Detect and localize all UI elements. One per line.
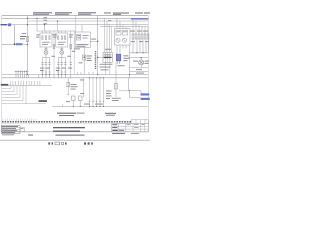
fan destination label	[39, 100, 48, 102]
blue cross-reference link 2	[141, 98, 150, 100]
wire drop from supply	[14, 25, 16, 45]
tap wire B	[57, 20, 58, 31]
enclosure box U1	[75, 25, 90, 48]
contact symbol group 2	[60, 47, 63, 50]
drive unit inner labels	[117, 30, 127, 33]
drive unit G1 box	[115, 29, 131, 46]
contact symbol group 1	[45, 47, 48, 50]
bus wire L1	[2, 17, 149, 19]
bus wire L2	[28, 20, 149, 22]
bus wire lower 2	[2, 77, 149, 79]
terminal crossbars group 1	[42, 71, 51, 73]
strip underline	[2, 122, 131, 124]
title block header row	[131, 120, 148, 124]
stub on long wire	[62, 104, 64, 106]
group 2 wire labels	[56, 56, 71, 71]
aux wire right	[119, 78, 141, 98]
harness fan wire 4	[2, 85, 20, 97]
notes above terminal strip	[57, 113, 116, 116]
bus wire lower 1	[2, 74, 149, 76]
wires to relay coil	[117, 49, 120, 55]
splitter group 1	[43, 55, 50, 75]
relay output component	[112, 62, 121, 101]
junction dots on lower bus	[27, 74, 130, 75]
tap wire A	[44, 24, 45, 31]
drawing notes text	[53, 127, 85, 132]
group 2 labels	[52, 34, 73, 44]
branch wire box to bus	[90, 40, 97, 42]
cable labels right	[106, 91, 112, 99]
motor cable wires	[90, 78, 104, 107]
motor starter group 1 device box	[40, 31, 52, 47]
spare wire between groups	[53, 31, 55, 75]
blue cross-reference link 1	[141, 93, 150, 95]
wire to left edge	[2, 43, 15, 45]
motor starter group 2 device box	[56, 31, 68, 47]
motor labels	[133, 61, 149, 64]
node bus right 2	[128, 57, 149, 59]
junction dots	[97, 41, 98, 42]
contactor M1 circle	[44, 51, 48, 55]
wires to terminal block	[105, 18, 112, 52]
right wires down to node bus	[133, 39, 149, 53]
terminal strip X1 ticks	[10, 81, 40, 85]
terminal ticks row between buses	[16, 75, 29, 78]
terminal strip X10 dashed row	[2, 121, 131, 123]
tap wire left	[36, 18, 37, 31]
header label row (sheet cross references)	[33, 12, 150, 14]
legend table	[1, 126, 24, 136]
splitter group 2	[58, 55, 65, 75]
overload contacts group 1	[41, 62, 50, 64]
bus name labels	[44, 17, 48, 24]
enclosure labels	[74, 35, 89, 49]
terminal strip label	[1, 84, 9, 86]
terminal header line with dots	[15, 71, 29, 75]
terminal block X2	[98, 53, 113, 75]
sensor wire left	[80, 78, 84, 97]
lower right labels	[136, 69, 144, 73]
vertical bus center	[97, 16, 99, 75]
cable junction dots top	[89, 77, 104, 78]
relay K5 highlighted (selected)	[116, 54, 124, 66]
relay side labels	[123, 55, 129, 61]
fuse F1 column	[20, 16, 29, 75]
terminal crossbars group 2	[57, 71, 66, 73]
tick marks above lower bus center	[78, 72, 94, 75]
highlighted blue wire top right	[131, 18, 148, 20]
drawing frame	[2, 16, 149, 132]
pump feeder wire	[67, 78, 78, 95]
terminal strip bus	[2, 84, 52, 86]
pin labels	[105, 20, 111, 50]
auxiliary contact S1	[79, 47, 93, 74]
vertical device tag text	[95, 51, 97, 69]
pager control icons right	[84, 142, 93, 144]
title block main	[112, 123, 149, 132]
spare wire right of group 2	[73, 31, 75, 75]
enclosure feed wire	[75, 16, 77, 32]
supply label with blue link box	[1, 23, 12, 26]
right distribution wires	[133, 18, 148, 34]
terminal number rows	[100, 64, 113, 71]
fuse trio group 1	[42, 36, 50, 40]
drive box output pins	[117, 45, 126, 49]
right fuse bank labels	[130, 31, 149, 43]
junction dots right	[136, 52, 143, 58]
cable labels bottom	[66, 101, 103, 104]
harness fan wire 3	[2, 85, 17, 94]
fuse trio group 2	[58, 36, 66, 40]
bus wire L3	[12, 24, 149, 26]
group 1 wire labels	[40, 56, 55, 71]
contactor M2 circle	[60, 51, 64, 55]
wires buses to drive box	[117, 18, 126, 28]
harness fan wire 1	[2, 85, 11, 88]
pager control icons left	[48, 142, 66, 145]
terminal row ticks above strip	[3, 119, 36, 121]
text under title block	[112, 133, 139, 134]
feeder drop tails to second bus	[39, 75, 71, 78]
viewer separator line	[0, 139, 150, 141]
branch label	[91, 38, 96, 41]
blue destination arrow label	[16, 43, 23, 45]
node bus right	[130, 52, 149, 54]
bottom wire junction dots	[73, 106, 104, 107]
long bottom wire	[52, 105, 148, 107]
group 1 labels	[36, 34, 57, 44]
harness fan wire 2	[2, 85, 14, 91]
bus wire N	[100, 26, 148, 28]
lower right link wires	[130, 45, 149, 78]
footer caption text	[28, 134, 85, 135]
overload contacts group 2	[57, 62, 66, 64]
node junction	[14, 43, 16, 45]
harness fan wire 6	[2, 85, 46, 103]
feeder bus	[37, 30, 75, 32]
sensor boxes above cable bus	[72, 96, 83, 106]
drive unit windings	[116, 38, 127, 42]
right fuse bank	[132, 34, 149, 39]
harness fan wire 5	[2, 85, 23, 100]
cable arrowheads	[89, 101, 105, 102]
auxiliary feeder wire	[68, 31, 75, 75]
motor M3 circle	[139, 58, 144, 65]
junction dot aux	[129, 90, 130, 91]
